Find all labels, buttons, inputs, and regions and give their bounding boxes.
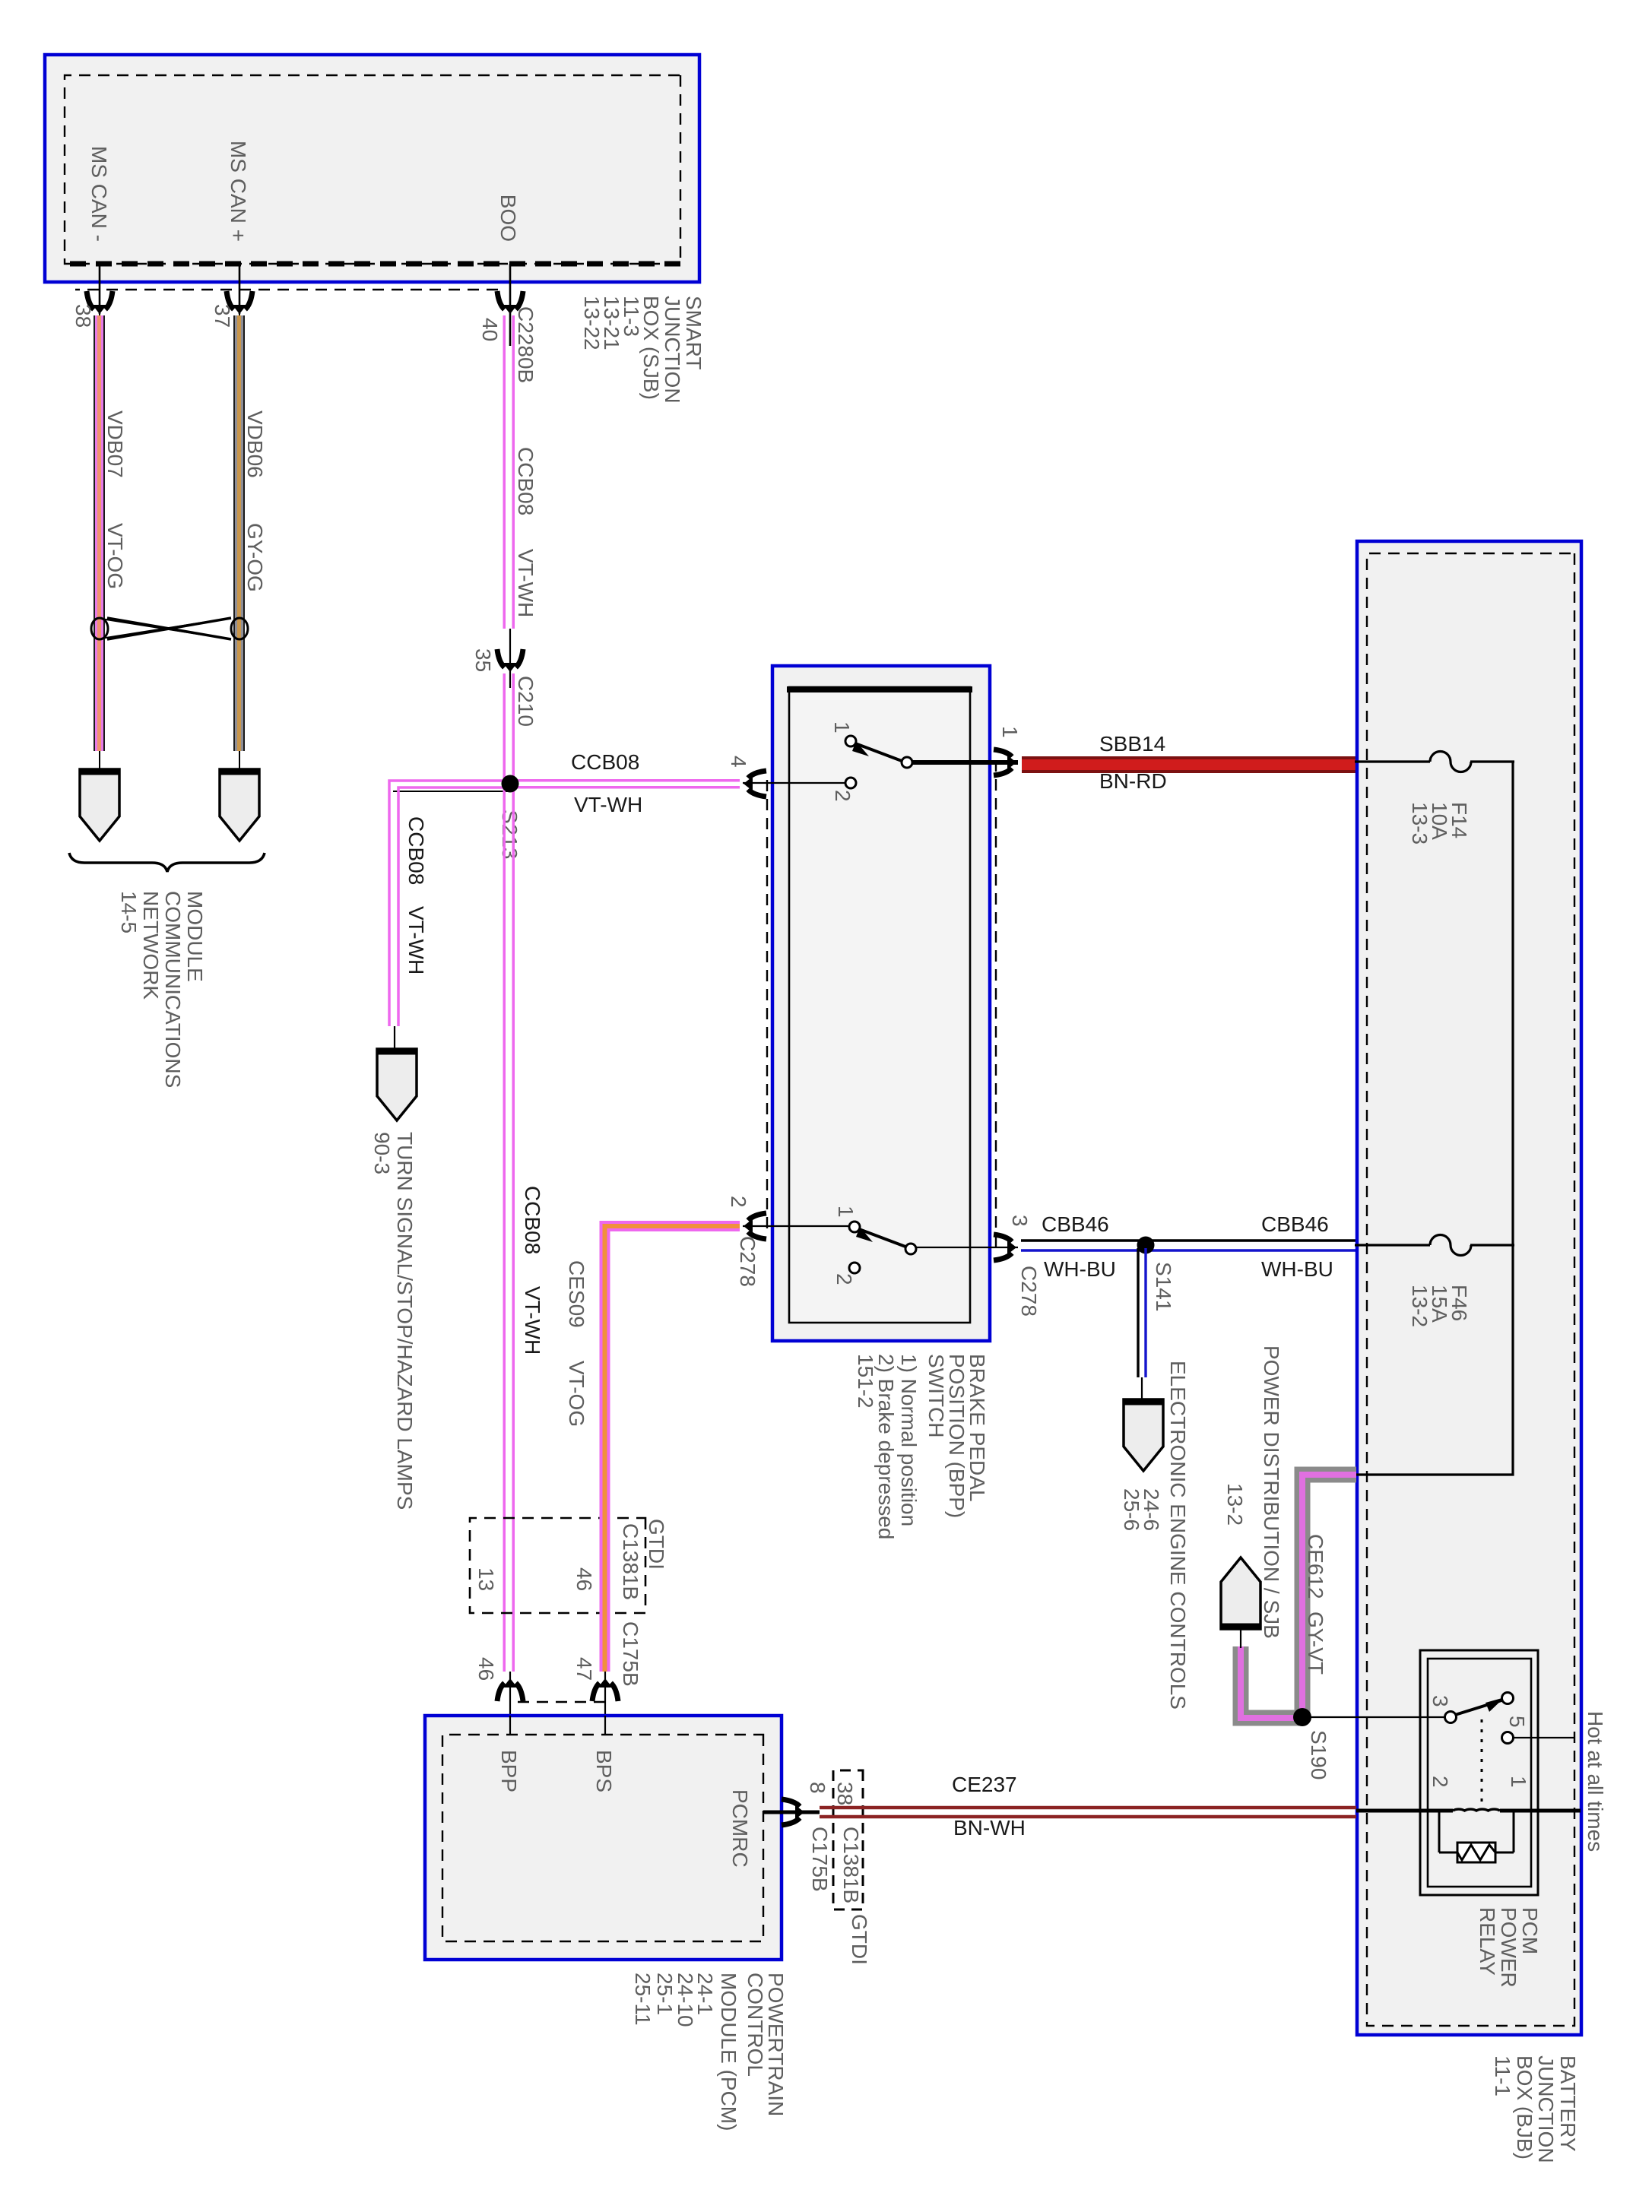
svg-text:C175B: C175B — [808, 1827, 832, 1892]
svg-text:PCM: PCM — [1518, 1907, 1542, 1954]
relay blade — [1455, 1697, 1505, 1715]
pin 40 connector arrow — [497, 291, 523, 314]
svg-text:13: 13 — [474, 1567, 498, 1591]
svg-text:TURN SIGNAL/STOP/HAZARD LAMPS: TURN SIGNAL/STOP/HAZARD LAMPS — [393, 1132, 417, 1510]
relay label text PCM POWER RELAY — [1476, 1907, 1542, 1988]
twisted pair symbol — [91, 618, 248, 639]
svg-text:CCB08: CCB08 — [571, 750, 639, 774]
connector C175B dashed face line at PCM — [510, 1701, 605, 1703]
svg-text:38: 38 — [71, 304, 95, 328]
module box BJB (BATTERY JUNCTION BOX) — [1357, 541, 1581, 2035]
svg-text:ELECTRONIC ENGINE CONTROLS: ELECTRONIC ENGINE CONTROLS — [1166, 1361, 1190, 1710]
wire CCB08 VT-WH segment SJB to C210 — [503, 315, 515, 688]
wire CES09 VT-OG from BPP pin 2 to PCM pin 47 — [605, 1226, 740, 1716]
svg-text:VT-WH: VT-WH — [521, 1286, 544, 1355]
svg-text:2: 2 — [831, 790, 855, 802]
svg-text:NETWORK: NETWORK — [139, 891, 163, 1000]
PCM pin stub PCMRC — [763, 1811, 782, 1814]
PCM pin stub BPS — [604, 1716, 606, 1735]
svg-text:MS CAN +: MS CAN + — [227, 141, 250, 242]
svg-text:BPS: BPS — [592, 1750, 616, 1792]
fuse F14 lead lower — [1355, 760, 1430, 762]
svg-text:3: 3 — [1428, 1695, 1452, 1707]
module box SJB (SMART JUNCTION BOX) — [45, 55, 699, 282]
fuse F46 lead lower — [1355, 1244, 1430, 1246]
BPP pin 2 connector arrow — [744, 1213, 766, 1239]
PCM pin 46 connector arrow — [497, 1678, 523, 1701]
off-page arrow power distribution — [1221, 1558, 1260, 1629]
off-page arrow for VDB07 (module communications network) — [80, 769, 119, 841]
wire VDB07 VT-OG — [94, 314, 105, 769]
svg-text:BATTERY: BATTERY — [1556, 2055, 1580, 2152]
svg-text:46: 46 — [474, 1657, 498, 1681]
svg-text:VT-WH: VT-WH — [514, 549, 537, 617]
wire CCB08 VT-WH branch S213 to turn signal lamps — [389, 781, 510, 1051]
off-page arrow for VDB06 (module communications network) — [220, 769, 259, 841]
svg-text:25-6: 25-6 — [1120, 1488, 1143, 1531]
svg-text:2: 2 — [727, 1196, 750, 1208]
svg-text:S190: S190 — [1307, 1730, 1330, 1779]
svg-text:MS CAN -: MS CAN - — [87, 146, 111, 242]
text MODULE COMMUNICATIONS NETWORK 14-5 — [117, 891, 207, 1088]
pin 37 connector arrow — [227, 291, 252, 314]
module box BPP switch — [772, 666, 990, 1341]
svg-text:CES09: CES09 — [565, 1260, 588, 1328]
connector C278 dashed face line (top pins) — [995, 760, 997, 1250]
svg-text:90-3: 90-3 — [370, 1132, 394, 1174]
svg-text:4: 4 — [727, 756, 750, 768]
svg-text:151-2: 151-2 — [854, 1354, 877, 1409]
svg-text:13-22: 13-22 — [580, 296, 604, 350]
svg-text:2: 2 — [832, 1273, 856, 1285]
PCM pin stub BPP — [509, 1716, 511, 1735]
svg-text:C278: C278 — [1017, 1266, 1041, 1317]
inline connector C1381B dashed box (GTDI) — [470, 1518, 645, 1613]
svg-text:CBB46: CBB46 — [1261, 1212, 1329, 1236]
svg-text:BPP: BPP — [497, 1750, 521, 1792]
svg-text:CE612: CE612 — [1304, 1534, 1327, 1599]
svg-text:PCMRC: PCMRC — [728, 1789, 752, 1868]
svg-text:VDB06: VDB06 — [243, 410, 267, 478]
splice S213 — [502, 775, 519, 793]
thin lead from common to BPP pin 3 — [916, 1247, 1018, 1248]
svg-text:8: 8 — [806, 1782, 829, 1794]
module box PCM (POWERTRAIN CONTROL MODULE) — [425, 1716, 782, 1960]
relay blade tip circle — [1502, 1693, 1514, 1704]
PCM pin 8 lead — [782, 1811, 820, 1814]
fuse F14 lead upper — [1470, 760, 1514, 762]
svg-text:SMART: SMART — [682, 296, 706, 370]
relay suppression resistor — [1439, 1811, 1514, 1862]
wire CCB08 VT-WH branch S213 up to BPP pin 4 — [510, 779, 740, 789]
svg-text:5: 5 — [1505, 1716, 1529, 1728]
svg-text:C1381B: C1381B — [619, 1523, 642, 1600]
text BATTERY JUNCTION BOX (BJB) 11-1 — [1491, 2055, 1580, 2163]
pin 37 stub wire — [239, 264, 241, 314]
svg-text:VT-WH: VT-WH — [404, 906, 428, 974]
wire CBB46 WH-BU segment S141 to BJB fuse F46 — [1146, 1241, 1356, 1250]
lead S190 to relay pin 3 — [1302, 1716, 1451, 1718]
svg-text:S213: S213 — [498, 810, 522, 859]
svg-text:VDB07: VDB07 — [103, 410, 127, 478]
svg-text:25-1: 25-1 — [653, 1973, 677, 2015]
svg-text:25-11: 25-11 — [631, 1973, 655, 2026]
lower switch common circle — [905, 1244, 916, 1254]
fuse F46 lead upper — [1470, 1244, 1514, 1246]
splice S190 — [1293, 1708, 1311, 1726]
connector C278 dashed face line (bottom pins) — [766, 780, 768, 1230]
svg-text:CCB08: CCB08 — [404, 816, 428, 885]
svg-text:POWER DISTRIBUTION / SJB: POWER DISTRIBUTION / SJB — [1260, 1345, 1283, 1639]
svg-text:C175B: C175B — [619, 1621, 642, 1687]
BPP pin 4 connector arrow — [744, 771, 766, 797]
svg-text:CCB08: CCB08 — [514, 447, 537, 515]
fuse F14 — [1430, 752, 1471, 772]
svg-text:11-1: 11-1 — [1491, 2055, 1514, 2096]
svg-text:CE237: CE237 — [952, 1773, 1017, 1796]
svg-text:2: 2 — [1428, 1776, 1452, 1788]
lower switch blade — [856, 1227, 905, 1247]
PCM pin 47 connector arrow — [592, 1678, 618, 1701]
svg-text:POWER: POWER — [1497, 1907, 1520, 1988]
svg-text:RELAY: RELAY — [1476, 1907, 1499, 1976]
fuse F46 — [1430, 1235, 1471, 1256]
svg-text:46: 46 — [572, 1567, 596, 1591]
relay pin 5 lead to hot feed — [1513, 1737, 1575, 1738]
svg-text:13-3: 13-3 — [1408, 802, 1432, 845]
svg-text:BN-WH: BN-WH — [953, 1816, 1026, 1840]
svg-text:GY-OG: GY-OG — [243, 523, 267, 592]
svg-text:C278: C278 — [736, 1236, 759, 1287]
svg-text:VT-WH: VT-WH — [574, 793, 642, 816]
svg-text:CCB08: CCB08 — [521, 1186, 544, 1254]
upper switch contact 1 circle — [845, 736, 856, 746]
svg-text:1: 1 — [998, 726, 1022, 738]
svg-text:1: 1 — [830, 721, 854, 734]
svg-text:35: 35 — [471, 648, 495, 672]
svg-text:VT-OG: VT-OG — [103, 523, 127, 589]
svg-text:C210: C210 — [514, 676, 537, 727]
wire CCB08 VT-WH segment C210 to S213 — [503, 673, 515, 784]
svg-text:C2280B: C2280B — [514, 306, 537, 383]
svg-text:1) Normal position: 1) Normal position — [897, 1354, 921, 1526]
wire SBB14 BN-RD — [1022, 756, 1356, 773]
relay coil wire vertical — [1356, 1809, 1581, 1811]
upper switch contact 2 circle — [845, 778, 856, 788]
svg-text:38: 38 — [833, 1782, 857, 1805]
svg-text:VT-OG: VT-OG — [565, 1361, 588, 1427]
text 24-6 25-6 — [1120, 1488, 1163, 1531]
svg-text:SWITCH: SWITCH — [924, 1354, 948, 1437]
svg-text:47: 47 — [572, 1657, 596, 1681]
upper switch common circle — [902, 757, 912, 768]
SJB title text — [580, 296, 706, 404]
svg-text:GY-VT: GY-VT — [1304, 1611, 1327, 1675]
svg-text:GTDI: GTDI — [645, 1519, 668, 1570]
BPP pin 1 connector arrow — [994, 749, 1016, 775]
relay pin 3 contact circle — [1445, 1712, 1457, 1723]
wire CE237 BN-WH — [820, 1808, 1356, 1817]
fuse label F14 10A 13-3 — [1408, 802, 1471, 845]
wire CCB08 VT-WH long run S213 to PCM pin 46 — [503, 784, 515, 1716]
text TURN SIGNAL/STOP/HAZARD LAMPS 90-3 — [370, 1132, 417, 1510]
upper switch blade — [852, 741, 902, 761]
lower switch contact 1 circle — [849, 1222, 860, 1232]
svg-text:JUNCTION: JUNCTION — [661, 296, 684, 404]
inline connector C1381B/C175B dashed box at pin 8 — [833, 1770, 863, 1909]
relay pin 5 contact circle — [1502, 1732, 1514, 1744]
relay PCM POWER RELAY box — [1420, 1650, 1538, 1895]
BPP pin 3 connector arrow — [994, 1234, 1016, 1260]
svg-text:GTDI: GTDI — [848, 1914, 871, 1965]
bus wire inside BJB — [1356, 762, 1513, 1475]
text BRAKE PEDAL POSITION (BPP) SWITCH notes — [854, 1354, 989, 1539]
svg-text:MODULE: MODULE — [183, 891, 207, 982]
connector C2280B dashed face line at SJB — [75, 289, 498, 290]
lower switch contact 2 circle — [849, 1263, 860, 1273]
splice S141 — [1137, 1237, 1155, 1254]
svg-text:JUNCTION: JUNCTION — [1534, 2055, 1558, 2163]
svg-text:3: 3 — [1008, 1215, 1032, 1227]
pin 38 stub wire — [99, 264, 101, 314]
svg-text:BOX (BJB): BOX (BJB) — [1513, 2055, 1536, 2160]
thin lead from pin 2 into switch — [743, 1225, 849, 1227]
fuse label F46 15A 13-2 — [1408, 1285, 1471, 1327]
thin lead from pin 4 into switch — [743, 782, 846, 784]
svg-text:13-2: 13-2 — [1223, 1483, 1247, 1526]
svg-text:1: 1 — [834, 1206, 858, 1218]
off-page arrow to turn signal lamps — [377, 1049, 417, 1120]
inline connector C210 arrow pin 35 — [497, 649, 523, 672]
svg-text:1: 1 — [1507, 1776, 1530, 1788]
svg-text:WH-BU: WH-BU — [1261, 1257, 1333, 1281]
wire CBB46 WH-BU branch S141 to electronic engine controls — [1138, 1248, 1146, 1400]
svg-text:SBB14: SBB14 — [1099, 732, 1165, 756]
svg-text:CONTROL: CONTROL — [744, 1973, 767, 2077]
relay dotted link — [1481, 1719, 1483, 1803]
svg-text:40: 40 — [478, 318, 502, 341]
svg-text:C1381B: C1381B — [839, 1827, 863, 1903]
svg-text:S141: S141 — [1152, 1262, 1175, 1311]
wire VDB06 GY-OG — [233, 314, 245, 769]
svg-text:MODULE (PCM): MODULE (PCM) — [717, 1973, 740, 2131]
svg-text:BOO: BOO — [496, 195, 520, 242]
PCM pin 8 connector arrow — [782, 1799, 804, 1825]
svg-text:13-2: 13-2 — [1408, 1285, 1432, 1327]
text POWERTRAIN CONTROL MODULE (PCM) references — [631, 1973, 788, 2131]
pin 38 connector arrow — [87, 291, 113, 314]
wire CE612 GY-VT — [1241, 1475, 1356, 1718]
off-page arrow to electronic engine controls — [1124, 1399, 1163, 1471]
brace grouping network wires — [69, 853, 265, 872]
thick lead from common to BPP pin 1 — [912, 760, 1018, 765]
wire CBB46 WH-BU segment BPP pin 3 to S141 — [1021, 1241, 1146, 1250]
pin 40 stub wire — [509, 264, 512, 346]
svg-text:Hot at all times: Hot at all times — [1584, 1711, 1607, 1852]
svg-text:WH-BU: WH-BU — [1044, 1257, 1116, 1281]
svg-text:37: 37 — [211, 304, 234, 328]
svg-text:14-5: 14-5 — [117, 891, 141, 933]
svg-text:COMMUNICATIONS: COMMUNICATIONS — [161, 891, 185, 1088]
svg-text:CBB46: CBB46 — [1042, 1212, 1109, 1236]
svg-text:BN-RD: BN-RD — [1099, 769, 1167, 793]
